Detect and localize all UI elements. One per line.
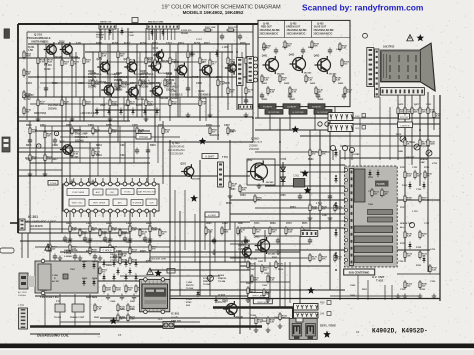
wire V18 <box>209 52 211 117</box>
resistor R907 <box>255 316 264 326</box>
svg-text:5.6K: 5.6K <box>407 200 412 202</box>
resistor R203 <box>71 58 80 68</box>
svg-text:2SC945: 2SC945 <box>161 97 169 100</box>
svg-text:C309: C309 <box>52 144 58 147</box>
wire V17 <box>199 44 201 121</box>
svg-text:10K: 10K <box>256 232 260 234</box>
svg-text:FUSE: FUSE <box>140 42 147 45</box>
control box R CUTOFF <box>265 110 283 115</box>
svg-text:10K: 10K <box>47 136 51 138</box>
resistor R216 <box>37 98 46 108</box>
svg-text:H.OSC: H.OSC <box>124 192 131 194</box>
svg-text:TC5mA: TC5mA <box>96 36 104 39</box>
resistor R454 <box>427 106 436 116</box>
wire H53 <box>240 227 350 229</box>
wire V31 <box>29 176 31 233</box>
svg-text:C403: C403 <box>336 48 342 51</box>
resistor R451 <box>404 106 413 116</box>
wire V30 <box>147 142 149 184</box>
resistor R227 <box>119 78 128 88</box>
capacitor C821 <box>120 294 124 301</box>
diode D802 <box>82 279 85 287</box>
svg-text:C203: C203 <box>26 82 32 85</box>
resistor R313 <box>109 243 118 253</box>
ground GND00 <box>36 117 41 122</box>
svg-text:AC 120V: AC 120V <box>18 291 27 294</box>
resistor R400 <box>263 42 272 52</box>
resistor R208 <box>145 56 154 66</box>
ground GND06 <box>244 113 249 118</box>
transistor Q206 <box>100 82 120 99</box>
wire V89 <box>119 126 121 163</box>
resistor R517 <box>254 194 263 204</box>
Q552 HOR OUT box <box>247 159 275 185</box>
wire V80 <box>123 97 125 121</box>
svg-text:AGC: AGC <box>96 191 101 194</box>
svg-text:T PS-B: T PS-B <box>64 253 72 255</box>
resistor R234 <box>92 126 101 136</box>
text stack between transistor rows A <box>88 71 102 89</box>
wire H24 <box>18 232 130 234</box>
ground GND904 <box>278 324 283 329</box>
transistor Q551 <box>180 164 200 181</box>
ground GND903 <box>266 328 271 333</box>
resistor R506 <box>334 203 343 213</box>
resistor R228 <box>139 78 148 88</box>
svg-text:Q20B - A: Q20B - A <box>88 79 98 82</box>
marker S2b <box>304 187 312 194</box>
IC801 AVR STR381 module box <box>140 278 170 314</box>
dark connector at top-left margin <box>4 29 10 39</box>
capacitor C306 <box>73 254 77 261</box>
resistor R703 <box>404 194 413 204</box>
resistor R453 <box>419 106 428 116</box>
svg-text:IC 301: IC 301 <box>28 215 38 219</box>
svg-text:C 806: C 806 <box>52 275 59 277</box>
resistor R217 <box>61 98 70 108</box>
wire V55 <box>404 95 406 262</box>
transistor Q212 <box>173 62 193 79</box>
svg-text:G 212: G 212 <box>24 98 31 101</box>
svg-text:VERT SIZE: VERT SIZE <box>257 302 269 304</box>
capacitor C502 <box>212 238 216 245</box>
svg-text:3.3K: 3.3K <box>342 48 347 50</box>
wire H43 <box>255 151 330 153</box>
diode D703 <box>422 256 425 264</box>
wire V78 <box>79 97 81 121</box>
svg-text:1K: 1K <box>422 200 425 202</box>
resistor R199 <box>226 26 238 31</box>
wire V27 <box>89 142 91 184</box>
svg-text:10K: 10K <box>122 262 126 264</box>
ground GND10 <box>91 180 96 185</box>
resistor R700 <box>404 170 413 180</box>
wire V21 <box>236 24 238 110</box>
svg-text:2.2K: 2.2K <box>132 230 137 232</box>
svg-text:75-384: 75-384 <box>203 283 211 286</box>
spine junctions <box>335 149 337 271</box>
diode D801 <box>92 262 95 270</box>
svg-text:L752: L752 <box>432 163 438 165</box>
svg-text:R407: R407 <box>308 46 314 49</box>
gray link AC to board <box>28 276 35 287</box>
svg-text:5.6K: 5.6K <box>208 232 213 234</box>
connector FBP <box>350 169 354 266</box>
svg-text:7908B: 7908B <box>376 182 385 186</box>
wire H39 <box>350 123 440 125</box>
svg-text:PROBABLY: PROBABLY <box>114 85 127 88</box>
marker S5 <box>110 317 118 324</box>
svg-text:Scanned by: randyfromm.com: Scanned by: randyfromm.com <box>302 3 423 13</box>
capacitor C202 <box>186 86 190 93</box>
svg-text:R 908: R 908 <box>250 315 257 317</box>
wire H11 <box>18 120 130 122</box>
svg-text:2SC2578/LG: 2SC2578/LG <box>114 77 128 79</box>
resistor R701 <box>414 170 423 180</box>
svg-text:C343: C343 <box>116 250 122 253</box>
svg-text:R 906: R 906 <box>203 278 210 280</box>
ground GND305 <box>58 256 63 261</box>
svg-text:L 701: L 701 <box>18 304 25 307</box>
resistor R900 <box>247 260 256 270</box>
wire V50 <box>309 130 311 232</box>
svg-text:R415: R415 <box>284 82 290 85</box>
marker S7 <box>323 331 331 338</box>
resistor R514 <box>309 253 318 263</box>
transistor Q207 <box>125 84 145 101</box>
resistor R215 <box>245 56 254 66</box>
resistor R458 <box>433 110 442 120</box>
capacitor C822 <box>132 294 136 301</box>
svg-text:10K: 10K <box>128 290 132 292</box>
svg-text:1.5K: 1.5K <box>288 232 293 234</box>
ground GND902 <box>254 328 259 333</box>
svg-text:C565: C565 <box>280 195 286 197</box>
wire V102 <box>289 262 291 303</box>
wire H8 <box>30 103 200 105</box>
input jack J1 (left margin) <box>2 137 10 152</box>
svg-text:R 904: R 904 <box>218 274 225 277</box>
diode D202 <box>119 108 122 116</box>
SUB CENTERING box <box>344 269 375 275</box>
svg-text:1.5K: 1.5K <box>202 104 207 106</box>
spark gap circle <box>409 222 414 227</box>
connector J401 <box>328 124 353 132</box>
svg-text:Q551: Q551 <box>180 164 186 166</box>
svg-text:120K: 120K <box>148 62 153 64</box>
svg-text:DEFL.YOKE: DEFL.YOKE <box>320 324 336 328</box>
AC inlet connector <box>19 273 28 289</box>
P201 pin stubs <box>101 29 175 40</box>
resistor R513 <box>301 226 310 236</box>
RGB channel divider lines <box>284 20 286 37</box>
svg-text:10K: 10K <box>92 252 96 254</box>
svg-text:OSC: OSC <box>110 192 115 194</box>
connector P401 <box>328 113 353 121</box>
wire H17 <box>18 151 62 153</box>
svg-text:C755: C755 <box>416 189 422 191</box>
svg-text:Q552: Q552 <box>247 160 253 162</box>
svg-text:47K: 47K <box>322 258 326 261</box>
svg-text:10K: 10K <box>130 104 134 106</box>
wire H58 <box>240 265 330 267</box>
svg-text:D753: D753 <box>402 185 408 187</box>
wire H12 <box>40 125 220 127</box>
diode D205 <box>155 108 158 116</box>
capacitor C203 <box>244 98 248 105</box>
wire V25 <box>44 126 46 176</box>
capacitor C204 <box>28 138 32 145</box>
ground GND700 <box>403 294 408 299</box>
svg-text:3.3K: 3.3K <box>74 154 79 156</box>
svg-text:D751: D751 <box>368 177 374 179</box>
wire V32 <box>49 222 51 262</box>
svg-text:C305: C305 <box>132 124 138 127</box>
resistor R229 <box>164 78 173 88</box>
diode D804 <box>102 260 105 268</box>
svg-text:H.HOLD: H.HOLD <box>139 136 148 139</box>
svg-text:Q951: Q951 <box>238 244 244 246</box>
node marker circleG <box>387 58 392 63</box>
svg-text:C209: C209 <box>196 82 202 85</box>
wire V107 <box>357 271 359 300</box>
svg-text:H CENT: H CENT <box>208 215 217 217</box>
control box B DRIVE <box>308 104 325 109</box>
wire H7 <box>22 96 253 98</box>
resistor R903 <box>251 274 260 284</box>
resistor R822 <box>125 284 134 294</box>
resistor R192 <box>23 90 32 100</box>
resistor R219 <box>109 98 118 108</box>
svg-text:56K: 56K <box>254 280 258 282</box>
ground GND506 <box>276 250 281 255</box>
wire V108 <box>367 280 369 300</box>
svg-text:56K: 56K <box>314 46 318 48</box>
wire V103 <box>349 130 351 166</box>
svg-text:H.HOLD: H.HOLD <box>210 134 219 137</box>
marker S1 <box>417 34 425 41</box>
svg-text:EXPECT: EXPECT <box>110 257 119 259</box>
flyback resonance capacitor C561 (dark) <box>293 179 304 188</box>
marker W2 <box>45 244 51 250</box>
control box B CUTOFF <box>314 110 332 115</box>
svg-text:R411: R411 <box>262 82 268 85</box>
pot VR801 circle <box>207 275 213 281</box>
resistor R237 <box>162 126 171 136</box>
wire V98 <box>244 236 246 262</box>
connector P212 <box>247 57 254 83</box>
svg-text:1K: 1K <box>407 144 410 146</box>
svg-text:C809: C809 <box>110 301 116 303</box>
svg-text:R475: R475 <box>398 103 404 106</box>
resistor R408 <box>305 74 314 84</box>
transistor Q401 <box>262 54 285 75</box>
schematic frame right edge <box>439 95 441 301</box>
svg-text:120K: 120K <box>157 64 162 66</box>
svg-text:AC-DC: AC-DC <box>52 280 59 283</box>
resistor R190 <box>23 50 32 60</box>
resistor R512 <box>285 226 294 236</box>
svg-text:120K: 120K <box>430 144 435 146</box>
wire V70 <box>139 52 141 97</box>
svg-text:1K: 1K <box>232 68 235 71</box>
schematic frame top edge <box>18 23 258 25</box>
svg-text:C901: C901 <box>258 261 264 263</box>
ground GND502 <box>308 216 313 221</box>
svg-text:L202 C213 R260: L202 C213 R260 <box>80 112 99 115</box>
CRT electrode dashes <box>390 55 416 79</box>
svg-text:DEGAUSSING COIL: DEGAUSSING COIL <box>37 334 69 338</box>
resistor R218 <box>83 98 92 108</box>
svg-text:120K: 120K <box>152 230 157 232</box>
svg-text:C217: C217 <box>166 42 172 45</box>
wire V23 <box>252 24 254 142</box>
wire V4 <box>71 52 73 121</box>
node marker circleH <box>363 33 368 38</box>
svg-text:5.6K: 5.6K <box>347 92 352 94</box>
resistor R452 <box>411 106 420 116</box>
svg-text:FOCUS: FOCUS <box>400 117 408 119</box>
svg-text:R339: R339 <box>126 241 132 244</box>
resistor R800 <box>117 303 126 313</box>
svg-text:Q20B: Q20B <box>114 74 120 76</box>
schematic frame left edge <box>17 24 19 233</box>
svg-text:TO R467: TO R467 <box>24 94 34 97</box>
wire H23 <box>30 228 160 230</box>
svg-text:Q 552: Q 552 <box>251 137 259 141</box>
svg-text:R335: R335 <box>146 222 152 225</box>
connector P453 <box>380 88 424 96</box>
capacitor C199 <box>238 34 242 41</box>
svg-text:C759: C759 <box>398 261 404 263</box>
svg-text:R753: R753 <box>400 167 406 169</box>
resistor R504 <box>309 203 318 213</box>
diode D751 <box>368 170 371 178</box>
yoke plug right <box>306 324 316 339</box>
control box VERTLAMP <box>248 293 269 298</box>
wire H2 <box>85 51 233 53</box>
resistor R707 <box>404 250 413 260</box>
resistor R706 <box>419 230 428 240</box>
diode D203 <box>131 108 134 116</box>
resistor R708 <box>419 250 428 260</box>
ground GND07 <box>28 172 33 177</box>
svg-text:1.5K: 1.5K <box>202 62 207 64</box>
svg-text:R226: R226 <box>240 42 246 45</box>
svg-text:10K: 10K <box>282 80 286 82</box>
flyback core slab <box>354 169 365 202</box>
jack lead <box>10 222 19 224</box>
svg-text:R479: R479 <box>396 133 402 136</box>
svg-text:8.2K: 8.2K <box>270 322 275 324</box>
wire V19 <box>217 24 219 140</box>
wire V65 <box>314 107 316 130</box>
transistor Q301 <box>59 142 79 159</box>
wire H31 <box>120 275 220 277</box>
svg-text:R423: R423 <box>338 82 344 85</box>
thick wire degauss link <box>30 325 100 327</box>
svg-text:C573: C573 <box>286 223 292 225</box>
svg-text:R343: R343 <box>86 250 92 253</box>
resistor R704 <box>419 194 428 204</box>
capacitor C301 <box>83 236 87 243</box>
svg-text:L 201: L 201 <box>222 46 229 49</box>
resistor R312 <box>89 246 98 256</box>
svg-text:R245: R245 <box>224 82 230 85</box>
transistor Q552 <box>247 160 274 184</box>
yoke pin header FB <box>294 304 319 311</box>
svg-text:L 203: L 203 <box>128 32 134 34</box>
resistor R709 <box>429 264 438 274</box>
wire H59 <box>397 273 440 275</box>
svg-text:T801: T801 <box>70 269 76 271</box>
transistor Q214 <box>225 61 236 74</box>
svg-text:( TYPE ): ( TYPE ) <box>110 260 119 262</box>
resistor R191 <box>23 68 32 78</box>
resistor R409 <box>315 86 324 96</box>
svg-text:R319: R319 <box>96 154 102 157</box>
svg-text:R569: R569 <box>270 223 276 225</box>
svg-text:1.5K: 1.5K <box>224 232 229 234</box>
wire V8 <box>109 44 111 121</box>
ground GND900 <box>246 298 251 303</box>
resistor R407 <box>289 86 298 96</box>
resistor R509 <box>237 226 246 236</box>
svg-text:Q903: Q903 <box>254 236 260 238</box>
capacitor C401 <box>301 48 305 55</box>
svg-text:1K: 1K <box>240 232 243 234</box>
svg-text:C451: C451 <box>426 103 432 106</box>
svg-text:2SC1568A/B/C/C: 2SC1568A/B/C/C <box>260 33 279 36</box>
wire V2 <box>45 44 47 97</box>
ground GND702 <box>432 294 437 299</box>
resistor R307 <box>139 228 148 238</box>
svg-text:Q403: Q403 <box>314 54 320 57</box>
svg-text:4.7K: 4.7K <box>292 91 297 94</box>
svg-text:2.2K: 2.2K <box>308 80 313 82</box>
capacitor C304 <box>143 236 147 243</box>
svg-text:2SC945: 2SC945 <box>137 98 145 101</box>
connector L701 <box>19 308 28 329</box>
svg-text:2SC945: 2SC945 <box>198 97 207 100</box>
wire V34 <box>89 211 91 252</box>
relay box <box>72 304 84 312</box>
connector P202 <box>147 25 179 30</box>
svg-text:2.2K: 2.2K <box>172 104 177 106</box>
ground GND500 <box>228 194 233 199</box>
svg-text:C757: C757 <box>424 223 430 225</box>
resistor R510 <box>253 226 262 236</box>
svg-text:PROBABLY: PROBABLY <box>140 82 153 85</box>
svg-text:Q211: Q211 <box>153 48 159 50</box>
ground GND901 <box>266 298 271 303</box>
resistor R516 <box>334 253 343 263</box>
resistor R201 <box>45 56 54 66</box>
resistor R410 <box>333 74 342 84</box>
thick wire bottom bus <box>100 325 262 327</box>
diode D204 <box>143 108 146 116</box>
wire V87 <box>79 126 81 163</box>
diode D808 <box>124 260 127 268</box>
svg-text:MODELS 19K4902, 19K4952: MODELS 19K4902, 19K4952 <box>183 10 244 15</box>
svg-text:R235: R235 <box>52 82 58 85</box>
svg-text:2SC945: 2SC945 <box>268 253 276 256</box>
ground GND304 <box>148 237 153 242</box>
capacitor C504 <box>276 238 280 245</box>
ACL block <box>163 322 174 329</box>
wire H1 <box>28 43 250 45</box>
wire H46 <box>300 171 345 173</box>
